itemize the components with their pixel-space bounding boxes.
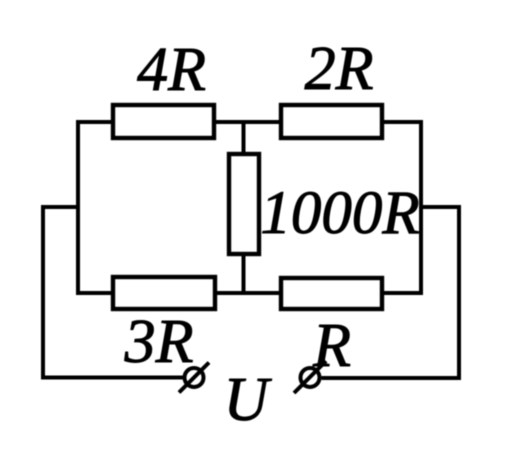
resistor 2R body <box>281 105 382 138</box>
svg-text:R: R <box>312 312 351 380</box>
svg-text:3R: 3R <box>124 308 194 376</box>
wire middle stub (node between 4R,2R and 1000R) <box>242 122 246 293</box>
wire right connector <box>419 205 461 209</box>
wire bottom-left rail to terminal <box>41 376 183 380</box>
terminal right (circle with slash) <box>294 361 326 393</box>
resistor 3R body <box>113 277 215 309</box>
resistor 4R body <box>113 105 214 138</box>
svg-text:U: U <box>224 366 273 434</box>
svg-text:1000R: 1000R <box>260 180 419 247</box>
wire inner-right vertical <box>419 120 423 295</box>
svg-text:2R: 2R <box>305 35 374 103</box>
resistor R body <box>281 278 382 309</box>
wire outer-right vertical <box>457 205 461 380</box>
terminal left (circle with slash) <box>179 363 209 393</box>
svg-text:4R: 4R <box>137 36 206 104</box>
wire bottom rail <box>76 291 423 295</box>
wire top rail <box>76 120 423 124</box>
wire outer-left vertical <box>41 205 45 380</box>
wire bottom-right rail from terminal <box>322 376 462 380</box>
resistor 1000R body (vertical) <box>229 154 259 254</box>
wire inner-left vertical <box>76 120 80 294</box>
wire left connector <box>41 205 80 209</box>
